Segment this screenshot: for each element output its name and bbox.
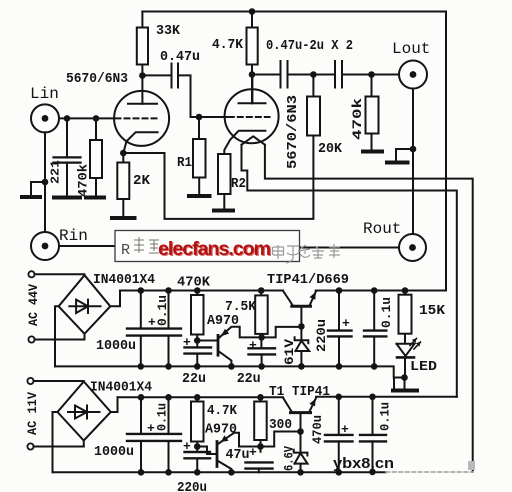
svg-text:300: 300: [269, 417, 292, 433]
svg-text:5670/6N3: 5670/6N3: [285, 95, 301, 169]
svg-text:470k: 470k: [76, 164, 91, 197]
svg-text:+: +: [249, 445, 257, 460]
svg-text:T1 TIP41: T1 TIP41: [269, 384, 330, 400]
svg-text:TIP41/D669: TIP41/D669: [267, 272, 349, 288]
svg-text:0.1u: 0.1u: [378, 402, 393, 431]
svg-text:IN4001X4: IN4001X4: [93, 272, 155, 288]
svg-text:+: +: [183, 439, 191, 454]
svg-text:ybx8.cn: ybx8.cn: [333, 455, 394, 472]
svg-text:61V: 61V: [282, 339, 297, 365]
svg-text:470k: 470k: [350, 98, 365, 140]
svg-text:R1: R1: [177, 155, 192, 171]
svg-text:+: +: [147, 421, 155, 436]
svg-text:33K: 33K: [156, 23, 181, 39]
svg-text:R: R: [121, 242, 130, 259]
svg-text:1000u: 1000u: [94, 444, 134, 460]
svg-text:47u: 47u: [226, 447, 250, 463]
svg-text:+: +: [341, 422, 349, 437]
svg-text:0.47u-2u X 2: 0.47u-2u X 2: [266, 38, 353, 54]
svg-text:2K: 2K: [133, 173, 151, 189]
svg-text:AC 11V: AC 11V: [25, 392, 40, 435]
svg-text:220u: 220u: [314, 319, 329, 352]
svg-text:1000u: 1000u: [96, 338, 136, 354]
svg-text:A970: A970: [207, 313, 239, 329]
svg-text:+: +: [148, 315, 156, 330]
svg-text:6.6V: 6.6V: [282, 446, 297, 471]
svg-text:15K: 15K: [419, 303, 446, 319]
svg-text:470u: 470u: [310, 415, 325, 444]
svg-text:470K: 470K: [177, 275, 211, 291]
svg-text:Rout: Rout: [363, 220, 401, 238]
svg-text:220u: 220u: [177, 480, 207, 492]
svg-text:0.47u: 0.47u: [160, 49, 200, 65]
svg-text:0.1u: 0.1u: [155, 403, 170, 431]
svg-text:IN4001X4: IN4001X4: [90, 380, 152, 396]
svg-text:4.7K: 4.7K: [207, 403, 238, 419]
svg-text:Rin: Rin: [59, 227, 88, 245]
svg-text:AC 44V: AC 44V: [26, 284, 41, 326]
svg-text:22u: 22u: [182, 371, 206, 387]
svg-text:Lout: Lout: [392, 40, 430, 58]
svg-text:R2: R2: [231, 176, 246, 192]
svg-text:+: +: [183, 335, 191, 350]
svg-text:4.7K: 4.7K: [212, 37, 244, 53]
svg-text:LED: LED: [410, 359, 437, 375]
svg-text:22u: 22u: [237, 371, 261, 387]
svg-text:5670/6N3: 5670/6N3: [66, 71, 128, 87]
svg-text:0.1u: 0.1u: [379, 297, 394, 328]
svg-text:+: +: [342, 316, 350, 331]
svg-text:+: +: [249, 338, 257, 353]
svg-text:221: 221: [49, 160, 63, 184]
svg-text:20K: 20K: [318, 141, 343, 157]
svg-text:Lin: Lin: [30, 85, 59, 103]
svg-text:0.1u: 0.1u: [155, 295, 170, 326]
svg-text:A970: A970: [205, 422, 237, 438]
svg-text:elecfans.com: elecfans.com: [158, 238, 271, 260]
